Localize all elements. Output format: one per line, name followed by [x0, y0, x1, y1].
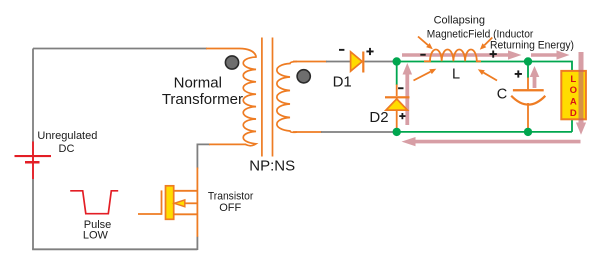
- svg-text:OFF: OFF: [219, 202, 241, 214]
- label Collapsing MagneticField (Inductor Returning Energy): [427, 15, 574, 52]
- label Transistor OFF: [208, 191, 254, 215]
- wire drain-corner (gray): [197, 144, 210, 168]
- svg-text:Transistor: Transistor: [208, 191, 254, 203]
- svg-text:Collapsing: Collapsing: [434, 15, 485, 27]
- label D1 minus: [339, 49, 344, 51]
- svg-text:Transformer: Transformer: [162, 91, 243, 108]
- wire left primary (gray): [32, 49, 34, 143]
- load resistor LOAD box: [561, 71, 586, 119]
- current arrow top-left (pink): [402, 50, 522, 59]
- annotation arrow lower-right (orange): [478, 69, 497, 80]
- label D2 minus: [398, 87, 403, 89]
- svg-text:DC: DC: [59, 143, 75, 155]
- wire top primary (orange segment into transformer): [206, 49, 256, 56]
- label L minus: [420, 54, 425, 56]
- annotation arrow upper-right (orange): [480, 38, 493, 50]
- label D2 plus: [399, 113, 405, 119]
- C upper lead: [527, 65, 529, 78]
- label L plus: [490, 51, 497, 58]
- label D1 plus: [366, 48, 373, 55]
- current arrow capacitor up (pink): [530, 66, 540, 88]
- wire secondary top (gray to D1): [326, 61, 393, 63]
- D2 cathode bar: [385, 96, 410, 98]
- svg-text:O: O: [570, 85, 577, 96]
- wire green top rail: [397, 62, 572, 132]
- current arrow bottom left (pink): [402, 137, 581, 146]
- channel bar: [166, 186, 174, 220]
- svg-text:NP:NS: NP:NS: [249, 157, 295, 174]
- C lower lead: [527, 103, 529, 129]
- current arrow D2 up (pink): [403, 63, 413, 125]
- source line: [174, 213, 198, 215]
- wire top primary (gray): [33, 48, 207, 50]
- label C plus: [515, 70, 522, 77]
- svg-text:Normal: Normal: [174, 74, 222, 91]
- wire drain vertical (orange): [196, 168, 198, 237]
- svg-text:Returning Energy): Returning Energy): [490, 39, 574, 51]
- capacitor C: [511, 65, 545, 129]
- transistor Q1 MOSFET: [138, 186, 198, 220]
- current arrow through load down (pink): [576, 52, 586, 135]
- node junction D1-D2 (green dot): [393, 57, 401, 65]
- wire primary bottom (orange segment): [209, 143, 246, 145]
- D2 upper lead (orange): [396, 85, 398, 97]
- wire secondary bottom (orange): [293, 131, 322, 133]
- wire left lower primary (gray): [32, 179, 34, 249]
- annotation arrow upper-left (orange): [418, 37, 433, 50]
- body arrow: [174, 200, 185, 207]
- C top plate: [513, 89, 544, 91]
- wire secondary bottom (gray): [321, 131, 393, 133]
- svg-text:LOW: LOW: [83, 230, 109, 242]
- label Unregulated DC: [37, 130, 97, 155]
- wire green bottom rail: [397, 131, 572, 133]
- svg-text:L: L: [452, 67, 460, 83]
- node junction D2-bottom (green dot): [393, 128, 401, 136]
- svg-text:D1: D1: [333, 74, 352, 91]
- svg-text:L: L: [570, 74, 576, 85]
- body arrow line: [184, 202, 198, 204]
- svg-text:D: D: [570, 108, 577, 119]
- svg-text:D2: D2: [369, 109, 388, 126]
- pulse waveform Pulse LOW (red): [70, 191, 118, 214]
- transformer core lines: [262, 38, 273, 157]
- battery V1 Unregulated DC (red): [15, 142, 52, 180]
- wire source-to-bottom (gray): [196, 237, 198, 251]
- annotation arrow lower-left (orange): [414, 69, 437, 81]
- D2 triangle: [386, 99, 408, 110]
- node junction C-top (green dot): [524, 57, 532, 65]
- wire green D2 upper: [396, 62, 398, 86]
- transformer T1 primary winding: [243, 55, 256, 146]
- svg-text:Unregulated: Unregulated: [37, 130, 97, 142]
- current arrow top-right (pink): [531, 50, 570, 59]
- polarity dot primary: [225, 56, 238, 69]
- node junction C-bottom (green dot): [524, 128, 532, 136]
- transformer T1 secondary winding: [277, 62, 297, 133]
- drain line: [174, 190, 198, 192]
- label Pulse LOW: [83, 219, 111, 242]
- wire secondary top (orange): [293, 61, 327, 63]
- diode D2: [385, 85, 410, 130]
- diode D1: [351, 52, 365, 73]
- C bottom plate (curved): [511, 96, 545, 105]
- svg-text:C: C: [497, 87, 507, 103]
- gate lead: [138, 213, 162, 215]
- wire bottom primary (gray): [32, 248, 197, 250]
- label LOAD letters: [570, 74, 577, 119]
- inductor L: [424, 49, 481, 61]
- svg-text:A: A: [570, 97, 577, 108]
- polarity dot secondary: [297, 70, 310, 83]
- D2 lower lead (orange): [396, 110, 398, 129]
- gate plate: [161, 190, 163, 214]
- label Normal Transformer: [162, 74, 243, 108]
